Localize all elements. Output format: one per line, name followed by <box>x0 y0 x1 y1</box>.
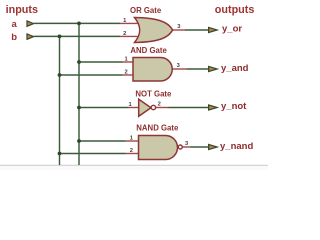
junction AND pin1 <box>77 60 81 64</box>
wire a vertical branch <box>78 23 80 165</box>
pin stub AND.out <box>172 68 188 70</box>
output arrow y_or <box>209 27 218 32</box>
input port b <box>27 34 34 39</box>
svg-text:OR Gate: OR Gate <box>130 6 162 15</box>
wire NAND output <box>191 146 210 148</box>
pin stub OR.2 <box>120 35 138 37</box>
junction AND pin2 <box>58 73 62 77</box>
pin stub NOT.out <box>156 107 169 109</box>
svg-text:NAND Gate: NAND Gate <box>136 123 179 132</box>
output arrow y_nand <box>209 144 218 149</box>
svg-text:y_not: y_not <box>221 101 247 112</box>
AND gate U2 <box>133 58 172 82</box>
NAND gate U4 bubble <box>178 145 182 149</box>
OR gate U1 <box>135 18 173 43</box>
wire to AND pin1 <box>79 61 123 63</box>
junction NAND pin1 <box>77 139 81 143</box>
svg-text:2: 2 <box>124 69 127 75</box>
svg-text:y_or: y_or <box>222 24 242 35</box>
wire AND output <box>187 68 211 70</box>
wire to NOT pin1 <box>79 107 129 109</box>
pin stub AND.1 <box>123 61 135 63</box>
output arrow y_and <box>209 66 218 71</box>
svg-text:AND Gate: AND Gate <box>130 46 167 55</box>
pin stub OR.out <box>172 29 186 31</box>
svg-text:b: b <box>11 32 17 43</box>
pin stub NOT.in <box>129 107 140 109</box>
svg-text:a: a <box>12 19 18 30</box>
svg-text:outputs: outputs <box>215 4 255 16</box>
wire to NAND pin2 <box>60 153 126 155</box>
junction NOT pin1 <box>77 106 81 110</box>
svg-text:y_and: y_and <box>221 63 249 74</box>
svg-text:2: 2 <box>123 31 126 37</box>
svg-text:y_nand: y_nand <box>220 141 253 152</box>
junction a branch <box>77 22 81 26</box>
canvas bottom edge <box>0 165 268 170</box>
output arrow y_not <box>209 105 218 110</box>
pin stub AND.2 <box>123 74 135 76</box>
svg-text:2: 2 <box>130 148 133 154</box>
pin stub NAND.out <box>182 146 190 148</box>
wire OR output <box>185 29 210 31</box>
junction b branch <box>58 35 62 39</box>
junction NAND pin2 <box>58 152 62 156</box>
pin stub NAND.2 <box>126 153 140 155</box>
svg-text:NOT Gate: NOT Gate <box>135 89 172 98</box>
wire to NAND pin1 <box>79 140 126 142</box>
svg-text:2: 2 <box>158 102 161 108</box>
wire b vertical branch <box>59 36 61 165</box>
wire b horizontal <box>34 35 120 37</box>
NOT gate U3 bubble <box>151 105 155 109</box>
wire a horizontal <box>34 22 120 24</box>
pin stub OR.1 <box>120 22 138 24</box>
wire to AND pin2 <box>60 74 123 76</box>
wire NOT output <box>168 107 210 109</box>
NAND gate U4 body <box>139 136 178 160</box>
pin stub NAND.1 <box>126 140 140 142</box>
NOT gate U3 triangle <box>139 99 151 116</box>
svg-text:inputs: inputs <box>6 4 38 16</box>
input port a <box>27 21 34 26</box>
